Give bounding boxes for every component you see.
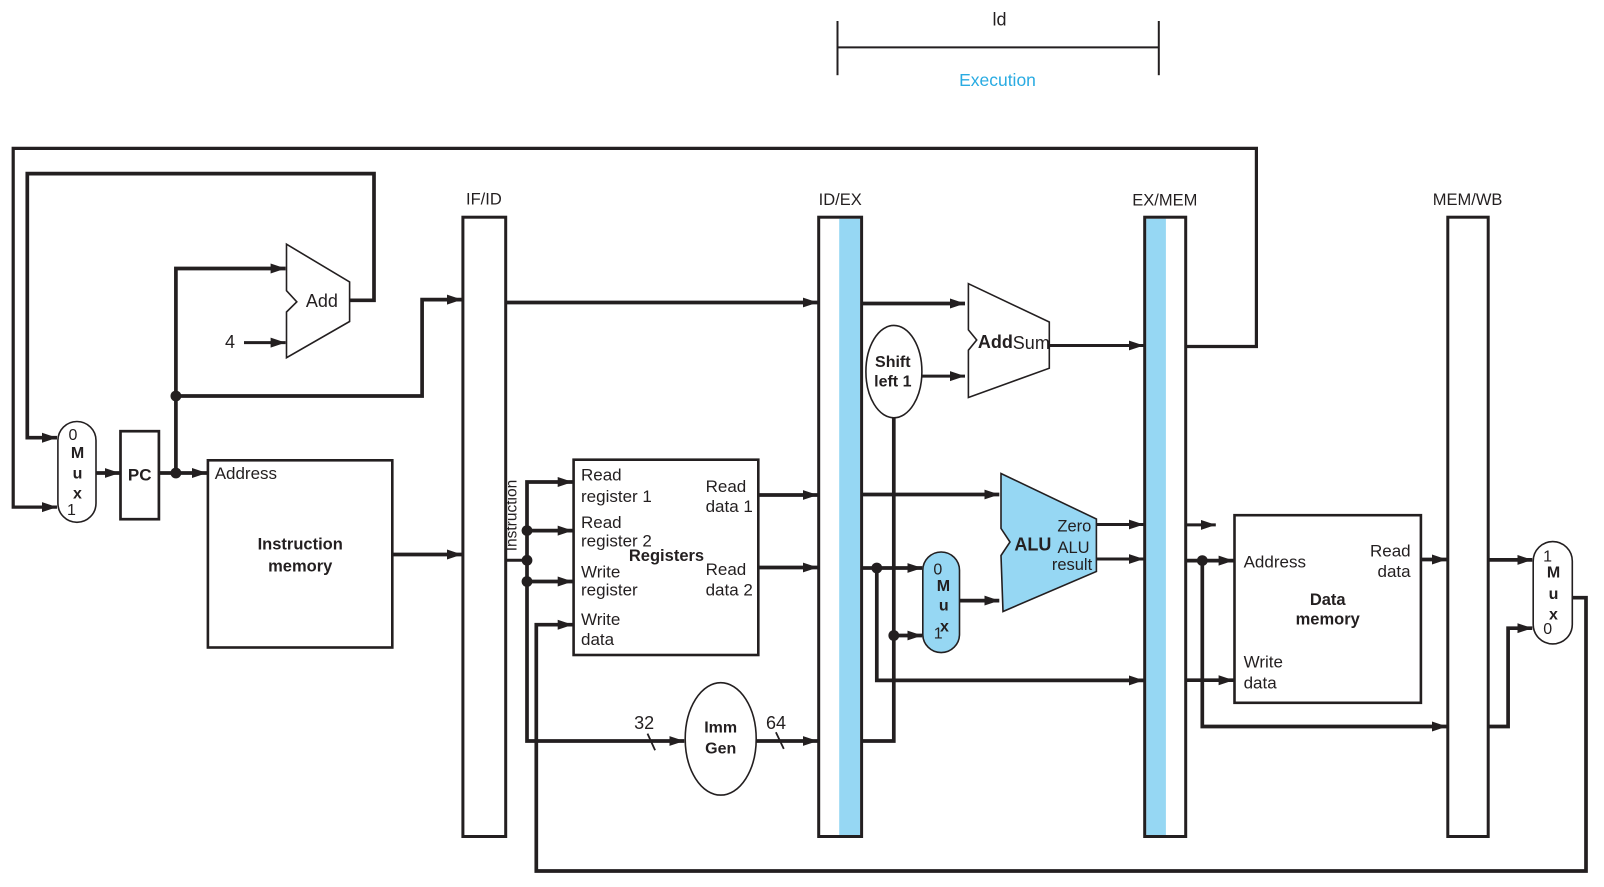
svg-text:Add: Add [978, 332, 1013, 352]
svg-text:register 1: register 1 [581, 487, 652, 506]
mux M2 (ALU src mux, blue) [923, 552, 960, 653]
wire ID/EX read data 2 [862, 566, 877, 570]
svg-text:u: u [939, 598, 949, 615]
svg-text:Registers: Registers [629, 547, 704, 565]
svg-text:Add: Add [306, 291, 338, 311]
svg-text:1: 1 [934, 626, 943, 643]
wire read data 2 to ALU mux input 0 [877, 566, 923, 570]
junction IF/ID feed [522, 555, 533, 566]
svg-text:ALU: ALU [1014, 534, 1051, 554]
wire IF/ID instruction to trunk [506, 559, 527, 562]
wire branch feedback EX/MEM to PC mux input 1 [13, 148, 1256, 507]
wire AddSum out to EX/MEM [1049, 344, 1144, 347]
svg-text:Write: Write [581, 563, 620, 582]
wire PC+4 feedback Add output to PC mux input 0 [27, 174, 374, 438]
svg-text:32: 32 [634, 713, 654, 733]
wire instruction trunk up to Read register 1 [527, 482, 573, 560]
wire EX/MEM zero stub [1186, 523, 1216, 526]
wire to Read register 2 [527, 529, 573, 533]
wire ID/EX PC to AddSum input 1 [862, 302, 965, 306]
wire PC to IF/ID [176, 300, 462, 396]
svg-text:data: data [1378, 562, 1412, 581]
shift left 1 ellipse [866, 325, 922, 417]
svg-text:0: 0 [933, 561, 942, 578]
svg-text:Execution: Execution [959, 70, 1036, 90]
svg-text:Zero: Zero [1057, 518, 1091, 536]
registers box [574, 460, 759, 655]
svg-text:M: M [71, 445, 84, 462]
pipeline register MEM/WB [1448, 217, 1488, 836]
wire Data memory read data to MEM/WB [1421, 558, 1447, 562]
svg-text:Read: Read [706, 560, 747, 579]
wire Imm Gen out to ID/EX [756, 739, 818, 743]
junction PC out [171, 468, 182, 479]
svg-text:Data: Data [1310, 591, 1347, 609]
svg-text:Address: Address [215, 464, 277, 483]
wire MEM/WB ALU result to mux input 0 [1488, 628, 1532, 726]
svg-text:memory: memory [268, 558, 333, 576]
wire EX/MEM write data to Data memory [1186, 678, 1234, 682]
svg-text:data 2: data 2 [706, 581, 753, 600]
junction write register [522, 576, 533, 587]
wire ALU Zero out to EX/MEM [1096, 523, 1143, 526]
svg-text:PC: PC [128, 465, 152, 484]
svg-text:ld: ld [992, 9, 1006, 29]
svg-text:Read: Read [706, 477, 747, 496]
wire ID/EX read data 1 to ALU [862, 493, 1000, 497]
wire ID/EX imm to Shift left 1 [862, 418, 894, 741]
svg-text:Gen: Gen [705, 741, 736, 758]
svg-text:left 1: left 1 [874, 373, 911, 390]
wire read data 2 down to EX/MEM write data [877, 568, 1144, 680]
wire EX/MEM ALU result to Data memory Address [1186, 559, 1234, 563]
wire mux to PC [96, 471, 120, 475]
svg-text:64: 64 [766, 713, 786, 733]
instruction memory box [208, 460, 392, 647]
svg-text:u: u [1549, 586, 1559, 603]
svg-text:ALU: ALU [1057, 539, 1089, 557]
svg-text:Read: Read [581, 466, 622, 485]
wire MEM/WB read data to mux input 1 [1488, 558, 1532, 562]
svg-text:Read: Read [581, 513, 622, 532]
junction read data 2 [871, 563, 882, 574]
wire ALU mux out to ALU input 2 [960, 599, 1000, 603]
junction imm to mux [888, 630, 899, 641]
svg-text:1: 1 [1543, 549, 1552, 566]
wire 4 to Add [244, 341, 286, 344]
bus slash 32 [648, 734, 656, 751]
svg-text:M: M [937, 578, 950, 595]
pipeline register IF/ID [463, 217, 506, 836]
svg-text:Sum: Sum [1013, 333, 1050, 353]
register PC [121, 431, 159, 519]
svg-text:data: data [1244, 673, 1278, 692]
imm gen ellipse [685, 683, 756, 795]
svg-text:IF/ID: IF/ID [466, 191, 502, 209]
svg-text:u: u [73, 465, 83, 482]
wire shift left 1 to AddSum input 2 [922, 375, 965, 378]
wire Read data 2 to ID/EX [758, 566, 818, 570]
wire ALU result down to MEM/WB [1202, 561, 1447, 727]
svg-text:Read: Read [1370, 541, 1411, 560]
wire instruction trunk down to Imm Gen [527, 560, 684, 741]
svg-text:data: data [581, 630, 615, 649]
svg-text:Write: Write [581, 610, 620, 629]
junction read register 2 [522, 525, 533, 536]
pipeline register EX/MEM [1145, 217, 1186, 836]
svg-text:0: 0 [69, 427, 78, 444]
mux M3 (write-back mux) [1533, 542, 1572, 644]
bus slash 64 [776, 732, 784, 749]
wire IF/ID PC value to ID/EX [506, 301, 818, 305]
bracket left tick [837, 21, 839, 75]
svg-text:register: register [581, 581, 638, 600]
svg-text:data 1: data 1 [706, 497, 753, 516]
svg-text:Instruction: Instruction [258, 535, 343, 553]
wire PC to Instruction memory Address [159, 471, 207, 475]
ALU (blue) [1001, 474, 1096, 612]
wire to Write register [527, 580, 573, 584]
svg-text:ID/EX: ID/EX [819, 191, 862, 209]
svg-text:Address: Address [1244, 552, 1306, 571]
mux M1 (PC source mux) [58, 422, 96, 523]
wire write-back: right mux output to Registers Write data [536, 598, 1586, 871]
wire imm to ALU mux input 1 [894, 634, 923, 638]
stage bracket line [838, 46, 1159, 48]
pipeline register ID/EX [819, 217, 862, 836]
svg-text:1: 1 [67, 502, 76, 519]
svg-text:result: result [1052, 556, 1093, 574]
svg-text:EX/MEM: EX/MEM [1132, 191, 1197, 209]
wire ALU result out to EX/MEM [1096, 558, 1143, 561]
svg-text:0: 0 [1543, 621, 1552, 638]
adder Add (PC+4) [287, 244, 350, 358]
svg-text:Shift: Shift [875, 354, 911, 371]
svg-text:memory: memory [1296, 611, 1361, 629]
adder AddSum (branch target) [968, 284, 1049, 398]
svg-text:MEM/WB: MEM/WB [1433, 191, 1503, 209]
bracket right tick [1158, 21, 1160, 75]
wire PC trunk up to Add input 1 [176, 269, 286, 474]
data memory box [1235, 515, 1421, 703]
svg-text:M: M [1547, 565, 1560, 582]
junction ALU result [1197, 555, 1208, 566]
wire Instruction memory out to IF/ID [392, 553, 462, 557]
wire Read data 1 to ID/EX [758, 493, 818, 497]
svg-text:Imm: Imm [704, 719, 737, 736]
svg-text:x: x [73, 486, 82, 503]
svg-text:Instruction: Instruction [504, 480, 521, 552]
svg-text:Write: Write [1244, 653, 1283, 672]
junction PC to IF/ID branch [171, 391, 182, 402]
svg-text:4: 4 [225, 332, 235, 352]
